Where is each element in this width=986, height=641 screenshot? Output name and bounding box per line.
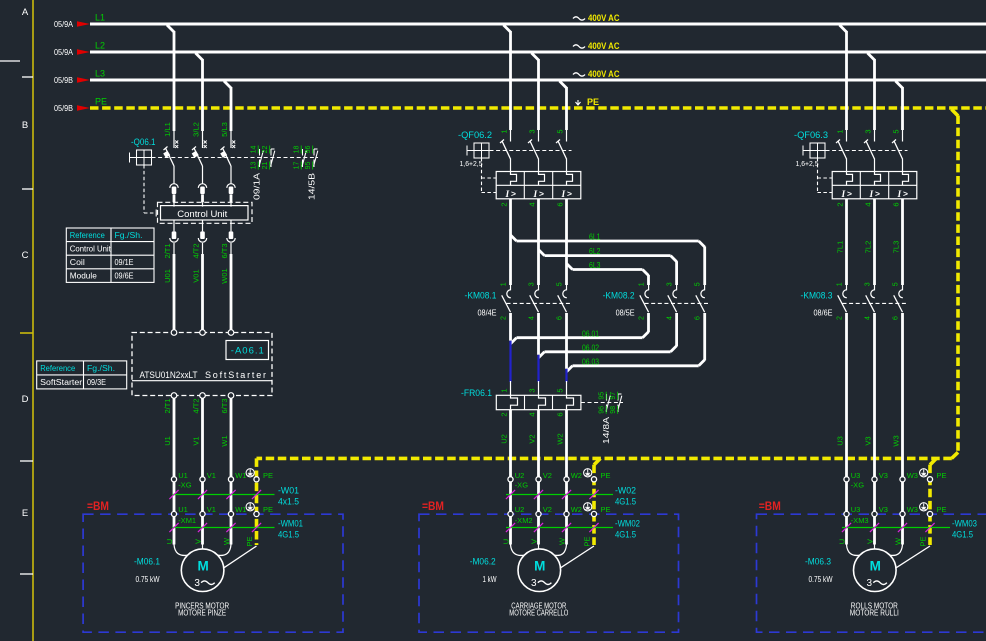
svg-text:-XG: -XG	[178, 481, 192, 490]
svg-text:-A06.1: -A06.1	[231, 346, 264, 357]
svg-text:W2: W2	[555, 433, 564, 444]
svg-text:3: 3	[867, 578, 873, 589]
svg-text:14/5B: 14/5B	[308, 173, 317, 200]
svg-text:1,6+2,5: 1,6+2,5	[796, 159, 819, 168]
svg-text:4: 4	[528, 316, 535, 320]
svg-text:-M06.1: -M06.1	[134, 557, 160, 568]
svg-text:V1: V1	[207, 471, 216, 480]
svg-text:I: I	[841, 190, 846, 200]
svg-text:Reference: Reference	[40, 364, 76, 373]
svg-text:0.75 kW: 0.75 kW	[809, 574, 833, 584]
svg-text:3: 3	[527, 388, 536, 392]
svg-text:MOTORE CARRELLO: MOTORE CARRELLO	[509, 609, 568, 618]
svg-text:3/L2: 3/L2	[191, 122, 200, 137]
svg-text:U3: U3	[835, 436, 844, 446]
svg-text:96: 96	[305, 146, 312, 154]
svg-text:>: >	[567, 188, 572, 198]
svg-text:4: 4	[527, 412, 536, 416]
svg-text:09/1A: 09/1A	[253, 172, 262, 200]
svg-text:6: 6	[694, 316, 701, 320]
svg-text:W3: W3	[907, 505, 918, 514]
svg-text:E: E	[22, 508, 28, 519]
svg-text:3: 3	[666, 282, 673, 286]
svg-text:98: 98	[610, 406, 617, 414]
svg-text:-QF06.3: -QF06.3	[794, 130, 828, 141]
svg-text:6L2: 6L2	[589, 247, 601, 256]
svg-text:PE: PE	[937, 505, 947, 514]
svg-text:4x1.5: 4x1.5	[278, 496, 299, 507]
svg-text:6/T3: 6/T3	[220, 243, 229, 258]
svg-text:400V AC: 400V AC	[588, 13, 620, 23]
svg-text:5: 5	[556, 282, 563, 286]
svg-text:1: 1	[499, 388, 508, 392]
svg-text:U2: U2	[515, 505, 525, 514]
svg-text:A: A	[22, 7, 29, 18]
svg-text:95: 95	[305, 162, 312, 170]
svg-text:6: 6	[892, 316, 899, 320]
svg-text:5: 5	[694, 282, 701, 286]
svg-text:L1: L1	[95, 13, 105, 23]
svg-text:C: C	[22, 250, 29, 261]
svg-text:97: 97	[610, 392, 617, 400]
svg-text:95: 95	[599, 392, 606, 400]
svg-text:U: U	[165, 539, 174, 544]
svg-text:V3: V3	[863, 436, 872, 445]
svg-text:=BM: =BM	[87, 501, 109, 513]
svg-text:18: 18	[294, 146, 301, 154]
svg-text:I: I	[897, 190, 902, 200]
svg-text:6L3: 6L3	[589, 261, 601, 270]
svg-text:PE: PE	[263, 471, 273, 480]
svg-text:PE: PE	[587, 97, 599, 107]
svg-text:V3: V3	[879, 505, 888, 514]
svg-text:09/3E: 09/3E	[87, 378, 106, 387]
svg-text:1: 1	[638, 282, 645, 286]
svg-text:7L1: 7L1	[835, 241, 844, 254]
svg-text:I: I	[505, 190, 510, 200]
svg-text:-KM08.1: -KM08.1	[465, 291, 497, 302]
svg-text:ATSU01N2xxLT: ATSU01N2xxLT	[140, 370, 198, 380]
svg-text:2: 2	[499, 412, 508, 416]
svg-text:W1: W1	[220, 435, 229, 446]
svg-text:-WM02: -WM02	[615, 519, 640, 530]
svg-text:PE: PE	[582, 536, 591, 546]
svg-text:7L3: 7L3	[891, 241, 900, 254]
svg-text:PE: PE	[937, 471, 947, 480]
svg-text:U2: U2	[515, 471, 525, 480]
svg-text:U3: U3	[851, 471, 861, 480]
svg-text:W3: W3	[907, 471, 918, 480]
svg-text:14/8A: 14/8A	[602, 416, 611, 444]
svg-text:Control Unit: Control Unit	[70, 244, 112, 253]
svg-text:V2: V2	[543, 505, 552, 514]
svg-text:1 kW: 1 kW	[483, 574, 497, 584]
svg-text:-QF06.2: -QF06.2	[458, 130, 492, 141]
svg-text:V1: V1	[207, 505, 216, 514]
svg-text:3: 3	[863, 129, 872, 133]
svg-text:06.02: 06.02	[582, 344, 599, 353]
svg-text:400V AC: 400V AC	[588, 69, 620, 79]
svg-text:4/T2: 4/T2	[191, 398, 200, 413]
svg-text:>: >	[847, 188, 852, 198]
svg-text:6: 6	[555, 202, 564, 206]
svg-text:MOTORE RULLI: MOTORE RULLI	[850, 609, 899, 618]
svg-text:1: 1	[500, 282, 507, 286]
svg-text:05/9A: 05/9A	[54, 20, 74, 29]
svg-text:L3: L3	[95, 69, 105, 79]
svg-text:3: 3	[864, 282, 871, 286]
svg-text:>: >	[511, 188, 516, 198]
svg-text:V01: V01	[191, 269, 200, 282]
svg-text:-XM1: -XM1	[178, 516, 196, 525]
svg-text:M: M	[534, 559, 545, 574]
svg-text:4G1.5: 4G1.5	[278, 529, 299, 540]
svg-text:W: W	[222, 537, 231, 545]
svg-text:4: 4	[666, 316, 673, 320]
svg-text:W2: W2	[571, 505, 582, 514]
svg-text:400V AC: 400V AC	[588, 41, 620, 51]
svg-text:W2: W2	[571, 471, 582, 480]
svg-text:V2: V2	[527, 434, 536, 443]
svg-text:=BM: =BM	[422, 501, 444, 513]
svg-text:-WM01: -WM01	[278, 519, 303, 530]
svg-text:0.75 kW: 0.75 kW	[136, 574, 160, 584]
svg-text:V1: V1	[191, 436, 200, 445]
svg-text:4/T2: 4/T2	[191, 243, 200, 258]
svg-text:6: 6	[555, 412, 564, 416]
svg-text:6: 6	[556, 316, 563, 320]
svg-text:I: I	[869, 190, 874, 200]
svg-text:06.03: 06.03	[582, 358, 599, 367]
svg-text:2/T1: 2/T1	[163, 398, 172, 413]
svg-text:6/T3: 6/T3	[220, 398, 229, 413]
svg-text:2: 2	[836, 316, 843, 320]
svg-text:-KM08.2: -KM08.2	[603, 291, 635, 302]
svg-text:1/L1: 1/L1	[163, 122, 172, 137]
svg-text:-KM08.3: -KM08.3	[801, 291, 833, 302]
svg-text:1: 1	[499, 129, 508, 133]
svg-text:PE: PE	[918, 536, 927, 546]
svg-text:-Q06.1: -Q06.1	[131, 137, 156, 148]
svg-text:-WM03: -WM03	[952, 519, 977, 530]
svg-text:>: >	[875, 188, 880, 198]
svg-text:2: 2	[835, 202, 844, 206]
svg-text:05/9B: 05/9B	[54, 104, 73, 113]
svg-text:05/9A: 05/9A	[54, 48, 74, 57]
svg-text:5/L3: 5/L3	[220, 122, 229, 137]
svg-text:D: D	[22, 394, 29, 405]
svg-text:V3: V3	[879, 471, 888, 480]
svg-text:U1: U1	[178, 471, 188, 480]
svg-text:96: 96	[599, 406, 606, 414]
svg-text:B: B	[22, 120, 28, 131]
svg-text:-M06.2: -M06.2	[470, 557, 496, 568]
svg-text:>: >	[539, 188, 544, 198]
svg-text:W: W	[557, 537, 566, 545]
svg-text:4: 4	[864, 316, 871, 320]
svg-text:4: 4	[527, 202, 536, 206]
svg-text:U: U	[501, 539, 510, 544]
svg-text:5: 5	[892, 282, 899, 286]
svg-text:W1: W1	[235, 505, 246, 514]
svg-text:2: 2	[500, 316, 507, 320]
svg-text:5: 5	[555, 129, 564, 133]
svg-text:14: 14	[251, 146, 258, 154]
svg-text:13: 13	[251, 162, 258, 170]
svg-text:I: I	[533, 190, 538, 200]
svg-text:U3: U3	[851, 505, 861, 514]
svg-text:4G1.5: 4G1.5	[615, 529, 636, 540]
svg-text:PE: PE	[601, 471, 611, 480]
svg-text:Module: Module	[70, 272, 98, 281]
svg-text:PE: PE	[95, 97, 107, 107]
svg-text:-XG: -XG	[851, 481, 865, 490]
svg-text:06.01: 06.01	[582, 329, 599, 338]
svg-text:Control Unit: Control Unit	[177, 209, 227, 220]
svg-text:PE: PE	[245, 536, 254, 546]
svg-text:2/T1: 2/T1	[163, 243, 172, 258]
svg-text:1: 1	[836, 282, 843, 286]
svg-text:MOTORE PINZE: MOTORE PINZE	[178, 609, 226, 618]
svg-text:-XM3: -XM3	[851, 516, 869, 525]
svg-text:U1: U1	[178, 505, 188, 514]
svg-text:6: 6	[891, 202, 900, 206]
svg-text:5: 5	[555, 388, 564, 392]
svg-text:Fg./Sh.: Fg./Sh.	[115, 231, 143, 240]
svg-text:U01: U01	[163, 269, 172, 283]
svg-text:08/5E: 08/5E	[616, 309, 635, 318]
svg-text:U1: U1	[163, 436, 172, 446]
svg-text:09/6E: 09/6E	[115, 272, 134, 281]
svg-text:1: 1	[835, 129, 844, 133]
svg-text:SoftStarter: SoftStarter	[40, 378, 82, 387]
svg-text:-W01: -W01	[278, 486, 299, 497]
svg-text:2: 2	[638, 316, 645, 320]
svg-text:>: >	[903, 188, 908, 198]
svg-text:V: V	[529, 539, 538, 544]
svg-text:W3: W3	[891, 435, 900, 446]
svg-text:M: M	[197, 559, 208, 574]
svg-text:V2: V2	[543, 471, 552, 480]
svg-text:4G1.5: 4G1.5	[952, 529, 973, 540]
svg-text:=BM: =BM	[759, 501, 781, 513]
svg-text:W01: W01	[220, 268, 229, 283]
svg-text:W1: W1	[235, 471, 246, 480]
svg-text:05/9B: 05/9B	[54, 76, 73, 85]
svg-text:08/4E: 08/4E	[478, 309, 497, 318]
svg-text:Coil: Coil	[70, 258, 85, 267]
svg-text:-W02: -W02	[615, 486, 636, 497]
svg-text:22: 22	[262, 146, 269, 154]
svg-text:21: 21	[262, 162, 269, 170]
svg-text:PE: PE	[601, 505, 611, 514]
svg-text:1,6+2,5: 1,6+2,5	[460, 159, 483, 168]
svg-text:Fg./Sh.: Fg./Sh.	[87, 364, 115, 373]
svg-text:U2: U2	[499, 434, 508, 444]
svg-text:-XG: -XG	[515, 481, 529, 490]
svg-text:17: 17	[294, 162, 301, 170]
svg-text:2: 2	[499, 202, 508, 206]
svg-text:PE: PE	[263, 505, 273, 514]
svg-text:-XM2: -XM2	[515, 516, 533, 525]
svg-text:09/1E: 09/1E	[115, 258, 134, 267]
svg-text:V: V	[865, 539, 874, 544]
svg-text:3: 3	[527, 129, 536, 133]
svg-text:08/6E: 08/6E	[814, 309, 833, 318]
svg-text:L2: L2	[95, 41, 105, 51]
svg-text:4G1.5: 4G1.5	[615, 496, 636, 507]
svg-text:W: W	[893, 537, 902, 545]
svg-text:-FR06.1: -FR06.1	[461, 388, 492, 399]
svg-text:5: 5	[891, 129, 900, 133]
svg-text:3: 3	[531, 578, 537, 589]
svg-text:I: I	[561, 190, 566, 200]
svg-text:V: V	[193, 539, 202, 544]
svg-text:3: 3	[528, 282, 535, 286]
svg-text:7L2: 7L2	[863, 241, 872, 254]
svg-text:Reference: Reference	[70, 231, 106, 240]
svg-text:M: M	[870, 559, 881, 574]
svg-text:-M06.3: -M06.3	[805, 557, 831, 568]
svg-text:6L1: 6L1	[589, 233, 601, 242]
svg-text:SoftStarter: SoftStarter	[205, 370, 266, 380]
svg-text:U: U	[837, 539, 846, 544]
svg-text:3: 3	[194, 578, 200, 589]
svg-text:4: 4	[863, 202, 872, 206]
